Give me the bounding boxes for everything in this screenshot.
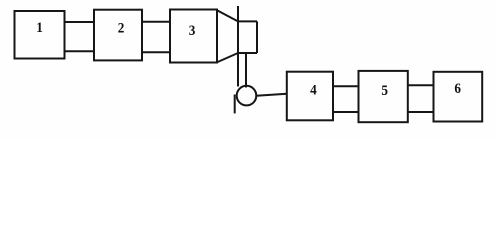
nozzle bottom diagonal [217, 53, 239, 63]
wire pipe box2-box3 top [142, 21, 170, 23]
box 5 [359, 71, 408, 122]
box 1 [15, 11, 65, 59]
box 2 [94, 10, 142, 61]
box 3 [170, 10, 217, 63]
box 6 [434, 72, 483, 122]
wire pipe box1-box2 bottom [65, 50, 95, 52]
svg-text:5: 5 [381, 83, 388, 99]
vertical line through nozzle throat [237, 6, 239, 87]
throat rectangle top [238, 20, 257, 22]
valve circle [237, 86, 257, 106]
drop line to valve [245, 53, 247, 88]
wire pipe box4-box5 top [333, 85, 359, 87]
wire pipe box1-box2 top [65, 21, 95, 23]
throat rectangle bottom [238, 52, 257, 54]
svg-text:6: 6 [454, 81, 461, 97]
box 4 [287, 72, 333, 121]
wire valve to box4 [256, 94, 287, 96]
svg-text:3: 3 [189, 23, 196, 39]
wire pipe box4-box5 bottom [333, 111, 359, 113]
throat rectangle right [256, 21, 258, 53]
nozzle top diagonal [217, 10, 239, 21]
svg-text:4: 4 [310, 83, 317, 99]
valve lever tick [234, 95, 236, 114]
wire pipe box5-box6 bottom [408, 111, 434, 113]
wire pipe box5-box6 top [408, 84, 434, 86]
wire pipe box2-box3 bottom [142, 51, 170, 53]
svg-text:2: 2 [118, 20, 125, 36]
svg-text:1: 1 [36, 20, 43, 36]
